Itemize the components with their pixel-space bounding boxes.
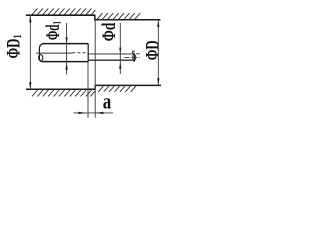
hatch top-right bbox=[97, 13, 140, 19]
extension line from hub shoulder down bbox=[87, 62, 89, 118]
dimension line PhiD bbox=[157, 20, 159, 86]
arrow Phid1 top (outside, tip down) bbox=[66, 37, 68, 43]
wall bottom-right hole surface bbox=[95, 84, 161, 86]
hub left end rounded bbox=[39, 44, 43, 62]
dimension line Phid1 bbox=[66, 23, 68, 75]
wall bottom-left hole surface bbox=[26, 88, 95, 90]
shaft hub large section top bbox=[42, 43, 88, 45]
dimension line PhiD1 bbox=[29, 15, 31, 89]
arrow a left (outside, tip right) bbox=[78, 112, 86, 114]
arrow Phid bottom (outside, tip up) bbox=[119, 62, 121, 69]
shaft hub large section bottom bbox=[42, 61, 88, 63]
hub shoulder face bbox=[87, 44, 89, 62]
svg-text:ΦD: ΦD bbox=[142, 40, 163, 60]
centerline solid part bbox=[36, 52, 72, 54]
arrow PhiD top bbox=[157, 20, 159, 27]
arrow PhiD bottom bbox=[157, 78, 159, 85]
centerline short dash beyond rod end bbox=[136, 53, 140, 55]
arrow Phid1 bottom (outside, tip up) bbox=[65, 63, 67, 70]
hatch bottom-left bbox=[32, 90, 95, 96]
extension line from wall step down bbox=[94, 20, 96, 118]
wall top-left hole surface bbox=[26, 14, 95, 16]
centerline hidden dashes inside hub bbox=[73, 52, 89, 54]
arrow Phid top (outside, tip down) bbox=[119, 48, 121, 54]
wall top step face bbox=[94, 15, 96, 20]
rod end ellipse right bbox=[133, 55, 136, 61]
arrow PhiD1 bottom bbox=[29, 82, 31, 89]
rod end ellipse at hub left face bbox=[39, 55, 43, 61]
hatch top-left bbox=[32, 8, 95, 14]
arrow PhiD1 top bbox=[29, 16, 31, 23]
svg-text:a: a bbox=[103, 89, 112, 114]
wall bottom step face bbox=[94, 85, 96, 89]
arrow a right (outside, tip left) bbox=[96, 112, 104, 114]
rod end small step nub bbox=[133, 51, 135, 54]
centerline right dash-dot bbox=[125, 56, 140, 58]
hatch bottom-right bbox=[98, 86, 136, 92]
dimension line Phid bbox=[119, 23, 121, 74]
rod small section top bbox=[88, 53, 134, 55]
wall top-right hole surface bbox=[94, 19, 160, 21]
rod small section bottom bbox=[88, 59, 134, 61]
svg-text:Φd: Φd bbox=[99, 22, 120, 41]
rod right end face bbox=[133, 53, 135, 62]
dimension line a bbox=[74, 112, 114, 114]
